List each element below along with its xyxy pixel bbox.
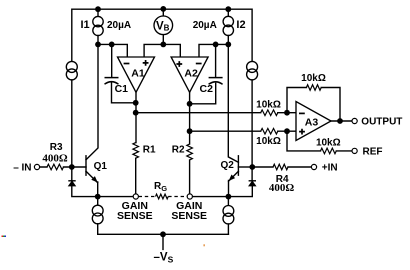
svg-text:R2: R2 <box>172 145 185 156</box>
svg-text:I2: I2 <box>236 19 245 31</box>
svg-text:REF: REF <box>363 146 383 157</box>
svg-text:– IN: – IN <box>13 162 31 173</box>
svg-text:A1: A1 <box>131 67 145 79</box>
svg-text:SENSE: SENSE <box>117 210 153 222</box>
svg-text:A3: A3 <box>305 116 319 128</box>
svg-text:Q1: Q1 <box>94 161 108 172</box>
svg-text:10kΩ: 10kΩ <box>256 136 281 147</box>
svg-text:I1: I1 <box>81 19 90 31</box>
svg-text:OUTPUT: OUTPUT <box>361 116 402 127</box>
svg-text:R1: R1 <box>143 145 156 156</box>
svg-text:A2: A2 <box>184 67 198 79</box>
svg-text:C1: C1 <box>115 83 129 95</box>
svg-text:400Ω: 400Ω <box>269 182 295 194</box>
svg-text:20µA: 20µA <box>107 20 131 31</box>
svg-text:+IN: +IN <box>322 163 338 174</box>
svg-text:10kΩ: 10kΩ <box>256 100 281 111</box>
svg-text:10kΩ: 10kΩ <box>301 73 326 84</box>
svg-text:10kΩ: 10kΩ <box>316 137 341 148</box>
svg-text:R3: R3 <box>50 142 63 153</box>
svg-text:C2: C2 <box>200 83 214 95</box>
svg-text:SENSE: SENSE <box>171 210 207 222</box>
svg-text:Q2: Q2 <box>221 160 235 171</box>
svg-text:20µA: 20µA <box>193 20 217 31</box>
svg-text:400Ω: 400Ω <box>42 152 68 164</box>
